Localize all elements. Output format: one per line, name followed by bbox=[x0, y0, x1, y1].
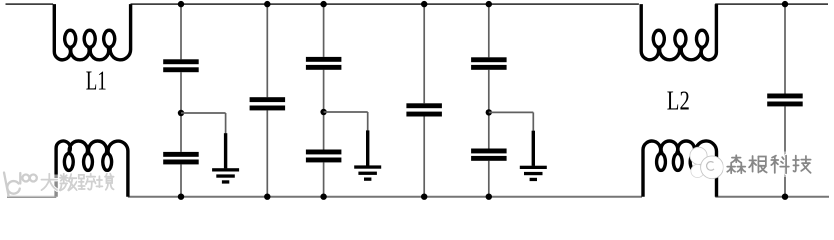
wire: bottom-left lead-in bbox=[7, 196, 56, 198]
capacitor CX2 (branch 4) bbox=[406, 103, 442, 108]
ground: branch5 bbox=[520, 131, 547, 181]
inductor L1 bottom winding bbox=[56, 141, 128, 197]
junction: branch6 / bottom bus bbox=[782, 194, 788, 200]
wire: branch CX1 vertical bbox=[266, 4, 268, 197]
capacitor CY5 (upper, branch 5) bbox=[471, 57, 507, 62]
ground: branch3 bbox=[354, 130, 381, 180]
capacitor CX3 (branch 6) bbox=[767, 94, 803, 99]
wire: top-left lead-in bbox=[6, 3, 54, 5]
junction: branch5 midpoint node bbox=[486, 109, 492, 115]
wire: branch CY3/CY4 vertical bbox=[323, 4, 325, 197]
capacitor CY1 (upper, branch 1) bbox=[163, 59, 199, 64]
capacitor CY3 (upper, branch 3) bbox=[306, 57, 342, 62]
capacitor CY6 (lower, branch 5) bbox=[471, 149, 507, 154]
watermark: left text char 2 (shu) bbox=[60, 174, 77, 191]
junction: branch2 / bottom bus bbox=[264, 194, 270, 200]
watermark: left text char 3 (kua) bbox=[78, 174, 95, 190]
inductor L2 bottom winding bbox=[643, 141, 717, 197]
junction: branch4 / top bus bbox=[421, 1, 427, 7]
junction: branch5 / top bus bbox=[486, 1, 492, 7]
wire: branch CY5/CY6 vertical bbox=[488, 4, 490, 197]
wire: branch CX3 vertical bbox=[784, 4, 786, 197]
wire: bottom bus between L1 and L2 bbox=[128, 196, 642, 198]
capacitor CX1 (branch 2) bbox=[250, 97, 286, 102]
wire: branch CX2 vertical bbox=[423, 4, 425, 197]
junction: branch1 / bottom bus bbox=[178, 194, 184, 200]
capacitor CY4 (lower, branch 3) bbox=[306, 150, 342, 155]
junction: branch3 midpoint node bbox=[320, 109, 326, 115]
junction: branch3 / top bus bbox=[320, 1, 326, 7]
junction: branch6 / top bus bbox=[782, 1, 788, 7]
junction: branch5 / bottom bus bbox=[486, 194, 492, 200]
watermark: left halo bbox=[0, 175, 118, 198]
junction: branch1 / top bus bbox=[178, 1, 184, 7]
watermark: right text char 4 (ji) bbox=[793, 156, 811, 173]
junction: branch3 / bottom bus bbox=[320, 194, 326, 200]
watermark: right text char 1 (sen) bbox=[727, 155, 745, 173]
inductor L1 top winding bbox=[54, 4, 130, 60]
svg-text:L2: L2 bbox=[667, 86, 690, 116]
watermark: left text char 4 (jing) bbox=[96, 174, 113, 190]
junction: branch1 midpoint node bbox=[178, 110, 184, 116]
watermark: right text char 3 (ke) bbox=[771, 156, 789, 174]
wire: top bus between L1 and L2 bbox=[131, 3, 639, 5]
wire: branch5 midpoint to ground bbox=[489, 112, 534, 132]
wire: branch CY1/CY2 vertical bbox=[180, 4, 182, 197]
watermark: right text char 2 (gen) bbox=[749, 156, 767, 172]
inductor L2 top winding bbox=[641, 4, 716, 60]
capacitor CY2 (lower, branch 1) bbox=[163, 152, 199, 157]
junction: branch4 / bottom bus bbox=[421, 194, 427, 200]
wire: branch1 midpoint to ground bbox=[181, 113, 226, 135]
ground: branch1 bbox=[212, 133, 239, 183]
watermark: left text char 1 (da) bbox=[41, 174, 57, 190]
wire: top-right segment bbox=[715, 3, 828, 5]
watermark: right logo icon bbox=[690, 147, 723, 179]
watermark: right halo bbox=[723, 152, 813, 178]
wire: branch3 midpoint to ground bbox=[324, 112, 368, 132]
svg-text:L1: L1 bbox=[86, 65, 107, 95]
junction: branch2 / top bus bbox=[264, 1, 270, 7]
wire: bottom-right segment bbox=[715, 196, 829, 198]
watermark: left logo icon bbox=[4, 173, 37, 196]
